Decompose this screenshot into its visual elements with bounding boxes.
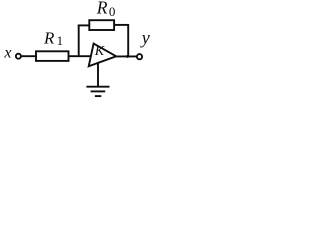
resistor R1 (36, 51, 69, 61)
wire R1 to op-amp input (69, 55, 92, 57)
feedback riser wire (node between R1 and op-amp, up) (78, 25, 80, 57)
svg-text:R: R (96, 0, 108, 18)
wire riser to R0 (78, 24, 89, 26)
wire input terminal to R1 (22, 55, 36, 57)
resistor R0 (89, 20, 114, 30)
input terminal circle (16, 54, 21, 59)
wire R0 to output drop (114, 24, 128, 26)
svg-text:y: y (140, 27, 150, 47)
svg-text:K: K (94, 44, 105, 59)
label R1 (43, 28, 63, 48)
label R0 (96, 0, 116, 19)
output terminal circle (137, 54, 142, 59)
svg-text:1: 1 (57, 33, 64, 48)
junction dot at output node (126, 55, 129, 58)
op-amp U1 (triangle) (89, 44, 117, 67)
svg-text:x: x (3, 45, 11, 62)
svg-text:R: R (43, 28, 55, 47)
ground symbol (86, 87, 109, 96)
svg-text:0: 0 (109, 4, 116, 19)
ground stem wire (97, 63, 99, 87)
feedback drop wire to output node (127, 24, 129, 56)
output wire from op-amp apex (116, 55, 137, 57)
